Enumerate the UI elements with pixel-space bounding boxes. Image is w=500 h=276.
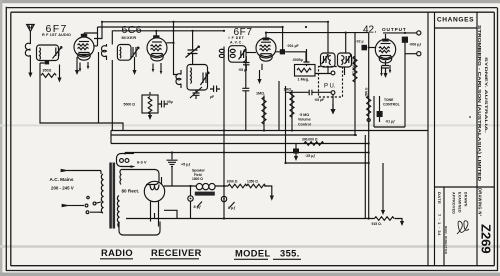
svg-text:42.: 42.: [363, 25, 377, 36]
svg-text:.0005µ: .0005µ: [292, 58, 303, 62]
svg-text:·05µ: ·05µ: [166, 100, 173, 104]
svg-text:300,000 Ω: 300,000 Ω: [302, 138, 318, 142]
svg-text:DATE: DATE: [437, 192, 442, 204]
svg-text:·001 µF: ·001 µF: [287, 44, 300, 48]
svg-text:1000 Ω: 1000 Ω: [227, 180, 238, 184]
svg-text:Z269: Z269: [479, 224, 494, 254]
svg-text:·05 µF: ·05 µF: [314, 98, 325, 102]
svg-text:RECEIVER: RECEIVER: [151, 248, 202, 258]
svg-text:STROMBERG - CARLSON (AUSTRALAS: STROMBERG - CARLSON (AUSTRALASIA) LIMITE…: [477, 25, 482, 182]
svg-text:1800 Ω: 1800 Ω: [192, 177, 203, 181]
svg-text:RADIO: RADIO: [101, 248, 133, 258]
svg-text:200 - 245 V: 200 - 245 V: [51, 186, 74, 191]
svg-text:MODEL: MODEL: [235, 249, 271, 259]
svg-text:MAN. DIRECTOR: MAN. DIRECTOR: [444, 226, 448, 255]
svg-text:TONE: TONE: [384, 98, 394, 102]
svg-text:80 Rect.: 80 Rect.: [122, 189, 140, 194]
svg-text:1 Meg.: 1 Meg.: [298, 78, 309, 82]
svg-text:·01 µƒ: ·01 µƒ: [385, 120, 395, 124]
svg-text:EXAMINED: EXAMINED: [458, 192, 462, 213]
svg-text:Control: Control: [298, 122, 311, 126]
svg-text:*: *: [469, 116, 471, 122]
svg-text:350Ω: 350Ω: [43, 69, 52, 73]
svg-text:8 µƒ: 8 µƒ: [228, 206, 235, 210]
svg-text:·25 µƒ: ·25 µƒ: [305, 154, 315, 158]
svg-text:·006 µƒ: ·006 µƒ: [409, 43, 421, 47]
svg-text:R F 1ST AUDIO: R F 1ST AUDIO: [42, 33, 71, 37]
svg-text:A.V.C.: A.V.C.: [230, 40, 243, 44]
svg-text:CHANGES: CHANGES: [437, 17, 474, 24]
svg-text:·02 µ: ·02 µ: [356, 40, 364, 44]
svg-text:MIXER: MIXER: [122, 35, 137, 40]
svg-text:SYDNEY. AUSTRALIA.: SYDNEY. AUSTRALIA.: [484, 57, 488, 133]
svg-text:OUTPUT: OUTPUT: [382, 27, 407, 32]
svg-text:APPROVED: APPROVED: [452, 192, 456, 214]
svg-text:CONTROL: CONTROL: [383, 103, 400, 107]
svg-text:1MΩ.: 1MΩ.: [284, 88, 293, 92]
svg-text:·5 MΩ: ·5 MΩ: [299, 113, 309, 117]
svg-text:·05 µ: ·05 µ: [238, 68, 246, 72]
svg-text:I F DET: I F DET: [229, 36, 245, 40]
svg-text:6·3 V: 6·3 V: [137, 160, 147, 165]
svg-text:·5 MΩ: ·5 MΩ: [364, 87, 368, 97]
svg-text:355.: 355.: [280, 249, 300, 259]
svg-text:5000 Ω: 5000 Ω: [124, 103, 136, 107]
svg-text:250,000 Ω: 250,000 Ω: [351, 58, 355, 74]
svg-text:7 · 1 · 34: 7 · 1 · 34: [437, 214, 442, 236]
svg-text:DRAWING Nº: DRAWING Nº: [478, 188, 483, 217]
svg-text:1350 Ω: 1350 Ω: [247, 180, 258, 184]
svg-text:1MΩ.: 1MΩ.: [256, 92, 265, 96]
svg-text:Volume: Volume: [298, 118, 311, 122]
svg-text:+5 µƒ: +5 µƒ: [181, 163, 190, 167]
svg-text:P U.: P U.: [324, 84, 336, 90]
svg-text:DRAWN: DRAWN: [464, 192, 468, 207]
svg-text:µF: µF: [210, 95, 214, 99]
svg-text:A.C. Mains: A.C. Mains: [50, 177, 74, 182]
svg-text:915 Ω.: 915 Ω.: [372, 222, 382, 226]
